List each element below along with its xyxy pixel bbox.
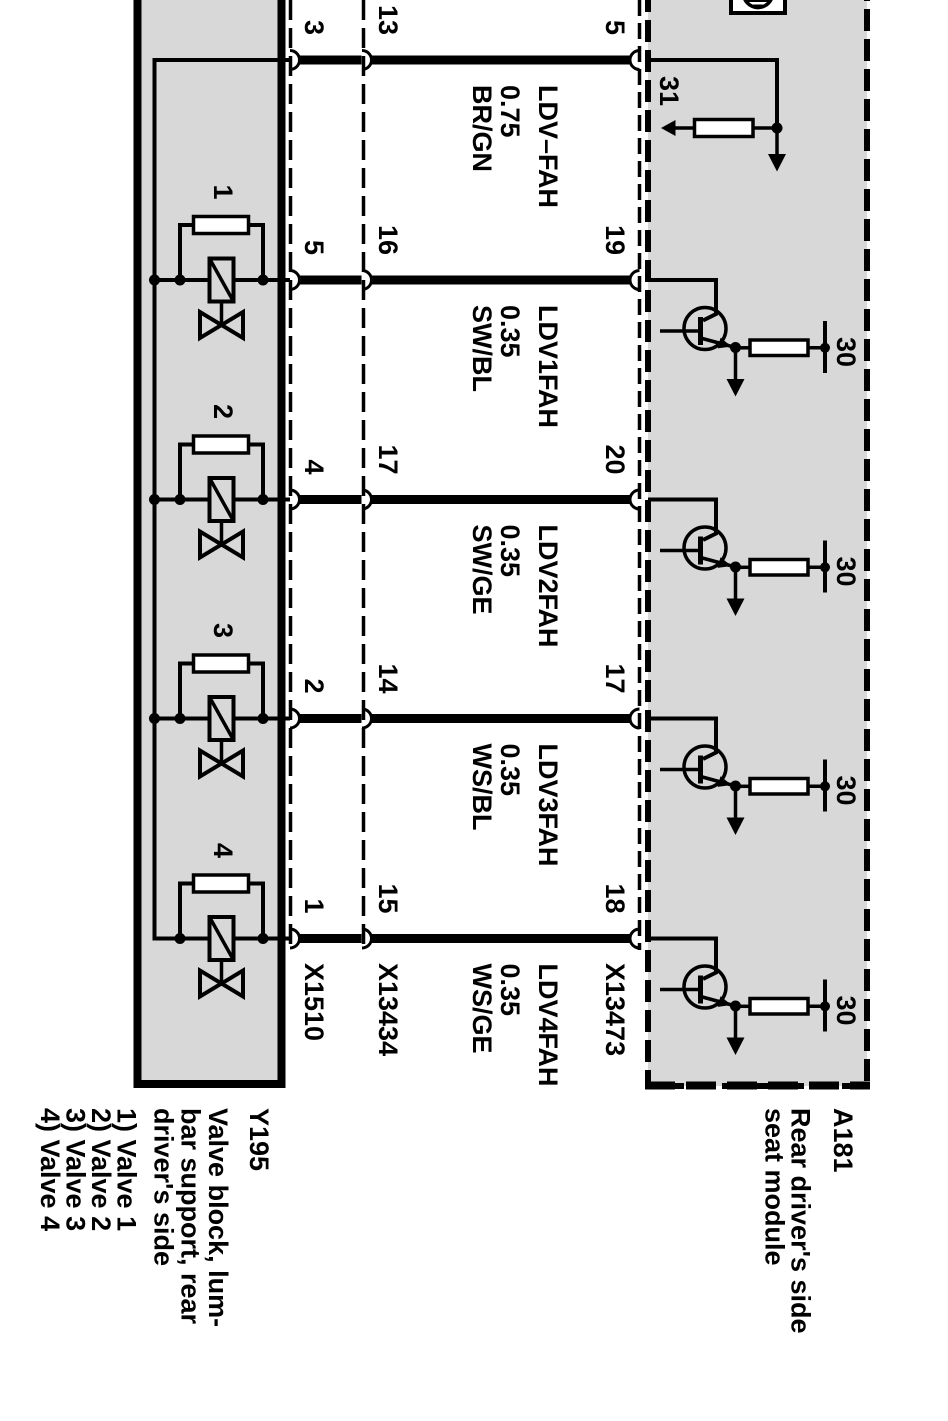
wire (thick) row 2: X1510 to X13434 [300,276,362,285]
wire: emitter resistor leads (row 3) [736,566,751,570]
connector X1510 pin 3 socket [290,51,300,70]
connector X1510 pin 2 socket [290,709,300,728]
valve symbol 2 (bowtie) [200,532,243,558]
wire: solenoid 1 to valve symbol [220,302,224,326]
seat module A181 bottom border [645,1082,870,1090]
connector X13473 line [638,0,642,950]
wire: valve 2 parallel branch left stub [180,445,194,500]
resistor (emitter sense, row 5) [750,999,808,1015]
svg-text:seat module: seat module [760,1108,790,1266]
wire: valve 1 parallel branch right stub [248,225,263,280]
resistor (suppressor) of valve 3 [194,655,249,672]
svg-text:LDV4FAH: LDV4FAH [533,964,563,1087]
svg-text:4: 4 [299,459,329,474]
svg-text:0.35: 0.35 [495,964,525,1017]
resistor (suppressor) of valve 2 [194,436,249,453]
resistor (emitter sense, row 3) [750,560,808,576]
junction: bus to valve 2 [149,494,160,505]
wire (thick) row 3: X13434 to X13473 (LDV2FAH) [372,495,631,504]
junction: terminal 30 node (row 3) [820,562,830,572]
svg-text:5: 5 [600,20,630,35]
svg-text:30: 30 [831,337,861,367]
svg-text:X13434: X13434 [373,963,403,1056]
wire (thick) row 5: X1510 to X13434 [300,934,362,943]
wire: solenoid 4 to valve symbol [220,960,224,984]
svg-text:0.35: 0.35 [495,305,525,358]
svg-text:3: 3 [299,20,329,35]
junction: terminal 30 node (row 4) [820,781,830,791]
svg-text:A181: A181 [828,1108,858,1173]
junction: valve 1 left node [175,275,186,286]
wire: emitter resistor leads (row 4) [736,785,751,789]
svg-text:2: 2 [208,404,238,419]
transistor Q3 (output stage NPN) [660,746,736,788]
wire: emitter resistor leads (row 2) [736,346,751,350]
connector X13473 pin 17 socket [630,709,640,728]
svg-text:WS/BL: WS/BL [467,744,497,831]
junction: Q4 emitter node [730,1001,741,1012]
connector X13434 pin 16 socket [362,271,372,290]
valve symbol 1 (bowtie) [200,312,243,338]
wire: emitter resistor leads (row 5) [736,1005,751,1009]
svg-text:driver's side: driver's side [149,1108,179,1266]
svg-text:30: 30 [831,557,861,587]
junction: Q3 emitter node [730,781,741,792]
wire: valve 1 parallel branch left stub [180,225,194,280]
svg-text:13: 13 [373,5,403,35]
wire: module pin 5 to node (row 1) [648,60,777,128]
solenoid coil of valve 1 [210,259,234,302]
svg-text:BR/GN: BR/GN [467,85,497,172]
connector X13434 pin 15 socket [362,929,372,948]
wire: module pin to transistor Q1 collector [648,280,716,321]
svg-text:20: 20 [600,444,630,474]
junction: valve 2 right node [258,494,269,505]
wire: row 3 valve block internal [155,498,291,502]
svg-text:LDV3FAH: LDV3FAH [533,744,563,867]
wire (thick) row 4: X13434 to X13473 (LDV3FAH) [372,714,631,723]
svg-text:LDV1FAH: LDV1FAH [533,305,563,428]
wire: valve 4 parallel branch right stub [248,884,263,939]
wire: valve 3 parallel branch left stub [180,664,194,719]
svg-text:15: 15 [373,883,403,913]
svg-text:1: 1 [208,184,238,199]
terminal 30 bar (row 3) [823,541,827,593]
wire: solenoid 2 to valve symbol [220,521,224,545]
ground symbol (row 2) [727,379,745,397]
junction: Q2 emitter node [730,562,741,573]
wire: resistor leads (row 1) [674,126,695,130]
wire: valve 2 parallel branch right stub [248,445,263,500]
valve symbol 3 (bowtie) [200,751,243,777]
connector X1510 pin 5 socket [290,271,300,290]
connector X13434 line [362,0,366,952]
resistor (suppressor) of valve 4 [194,875,249,892]
svg-text:2: 2 [299,678,329,693]
wire: Q1 emitter to ground [734,348,738,380]
svg-text:4: 4 [208,843,238,858]
wire: Q4 emitter to ground [734,1006,738,1038]
svg-text:19: 19 [600,225,630,255]
svg-text:SW/GE: SW/GE [467,525,497,615]
wire: solenoid 3 to valve symbol [220,740,224,764]
junction: terminal 30 node (row 5) [820,1001,830,1011]
connector X13473 pin 19 socket [630,271,640,290]
connector X13473 pin 5 socket [630,51,640,70]
ground symbol (row 4) [727,818,745,836]
transistor Q1 (output stage NPN) [660,308,736,350]
connector X13473 pin 18 socket [630,929,640,948]
resistor (emitter sense, row 4) [750,779,808,795]
wire: row 4 valve block internal [155,717,291,721]
terminal 30 bar (row 2) [823,321,827,373]
wire: row 2 valve block internal [155,278,291,282]
svg-text:Y195: Y195 [244,1108,274,1171]
svg-text:16: 16 [373,225,403,255]
terminal 30 bar (row 5) [823,980,827,1032]
transistor Q2 (output stage NPN) [660,527,736,569]
bus wire (common feed, valve block) [155,60,291,939]
junction: valve 3 right node [258,713,269,724]
svg-text:Valve block, lum-: Valve block, lum- [203,1108,233,1327]
connector X1510 pin 4 socket [290,490,300,509]
wire: node to ground (row 1) [775,128,779,156]
wire (thick) row 2: X13434 to X13473 (LDV1FAH) [372,276,631,285]
svg-text:WS/GE: WS/GE [467,964,497,1054]
svg-text:0.35: 0.35 [495,525,525,578]
valve symbol 4 (bowtie) [200,971,243,997]
svg-text:1: 1 [299,898,329,913]
junction: valve 2 left node [175,494,186,505]
junction: valve 1 right node [258,275,269,286]
connector X1510 line [289,0,293,952]
wire: valve 3 parallel branch right stub [248,664,263,719]
wire: module pin to transistor Q2 collector [648,500,716,541]
connector X13434 pin 17 socket [362,490,372,509]
svg-text:SW/BL: SW/BL [467,305,497,392]
wire (thick) row 1: X1510 to X13434 [300,56,362,65]
wire: module pin to transistor Q3 collector [648,719,716,760]
terminal 31 arrow [661,120,676,136]
junction: row 1 module node [772,123,783,134]
svg-text:bar support, rear: bar support, rear [176,1108,206,1325]
svg-text:30: 30 [831,776,861,806]
solenoid coil of valve 2 [210,478,234,521]
resistor (suppressor) of valve 1 [194,217,249,234]
transistor Q4 (output stage NPN) [660,966,736,1008]
junction: valve 4 left node [175,933,186,944]
svg-text:3: 3 [208,623,238,638]
svg-text:14: 14 [373,663,403,693]
junction: valve 3 left node [175,713,186,724]
svg-text:X1510: X1510 [299,963,329,1041]
svg-text:31: 31 [654,76,684,106]
junction: bus to valve 1 [149,275,160,286]
wire (thick) row 5: X13434 to X13473 (LDV4FAH) [372,934,631,943]
svg-text:LDV–FAH: LDV–FAH [533,85,563,208]
svg-text:LDV2FAH: LDV2FAH [533,525,563,648]
resistor (emitter sense, row 2) [750,340,808,356]
connector X13473 pin 20 socket [630,490,640,509]
valve block Y195 enclosure [138,0,282,1084]
connector X13434 pin 13 socket [362,51,372,70]
wire: module pin to transistor Q4 collector [648,939,716,980]
junction: Q1 emitter node [730,342,741,353]
junction: valve 4 right node [258,933,269,944]
wire (thick) row 4: X1510 to X13434 [300,714,362,723]
svg-text:5: 5 [299,240,329,255]
wire: Q3 emitter to ground [734,786,738,818]
svg-text:0.35: 0.35 [495,744,525,797]
svg-text:30: 30 [831,996,861,1026]
solenoid coil of valve 4 [210,917,234,960]
terminal 30 bar (row 4) [823,760,827,812]
svg-text:0.75: 0.75 [495,85,525,138]
module icon (top) [731,0,785,13]
ground symbol (row 5) [727,1038,745,1056]
solenoid coil of valve 3 [210,697,234,740]
svg-text:X13473: X13473 [600,963,630,1056]
svg-text:17: 17 [373,444,403,474]
resistor (module, terminal 31) [695,120,754,137]
connector X13434 pin 14 socket [362,709,372,728]
wire: valve 4 parallel branch left stub [180,884,194,939]
ground symbol (row 3) [727,599,745,617]
svg-text:4) Valve 4: 4) Valve 4 [35,1108,65,1231]
wire (thick) row 3: X1510 to X13434 [300,495,362,504]
junction: terminal 30 node (row 2) [820,343,830,353]
connector X1510 pin 1 socket [290,929,300,948]
wire (thick) row 1: X13434 to X13473 (LDV–FAH) [372,56,631,65]
svg-text:18: 18 [600,883,630,913]
ground symbol (row 1) [768,154,786,172]
wire: Q2 emitter to ground [734,567,738,599]
junction: bus to valve 3 [149,713,160,724]
seat module A181 enclosure [648,0,867,1086]
svg-text:17: 17 [600,663,630,693]
